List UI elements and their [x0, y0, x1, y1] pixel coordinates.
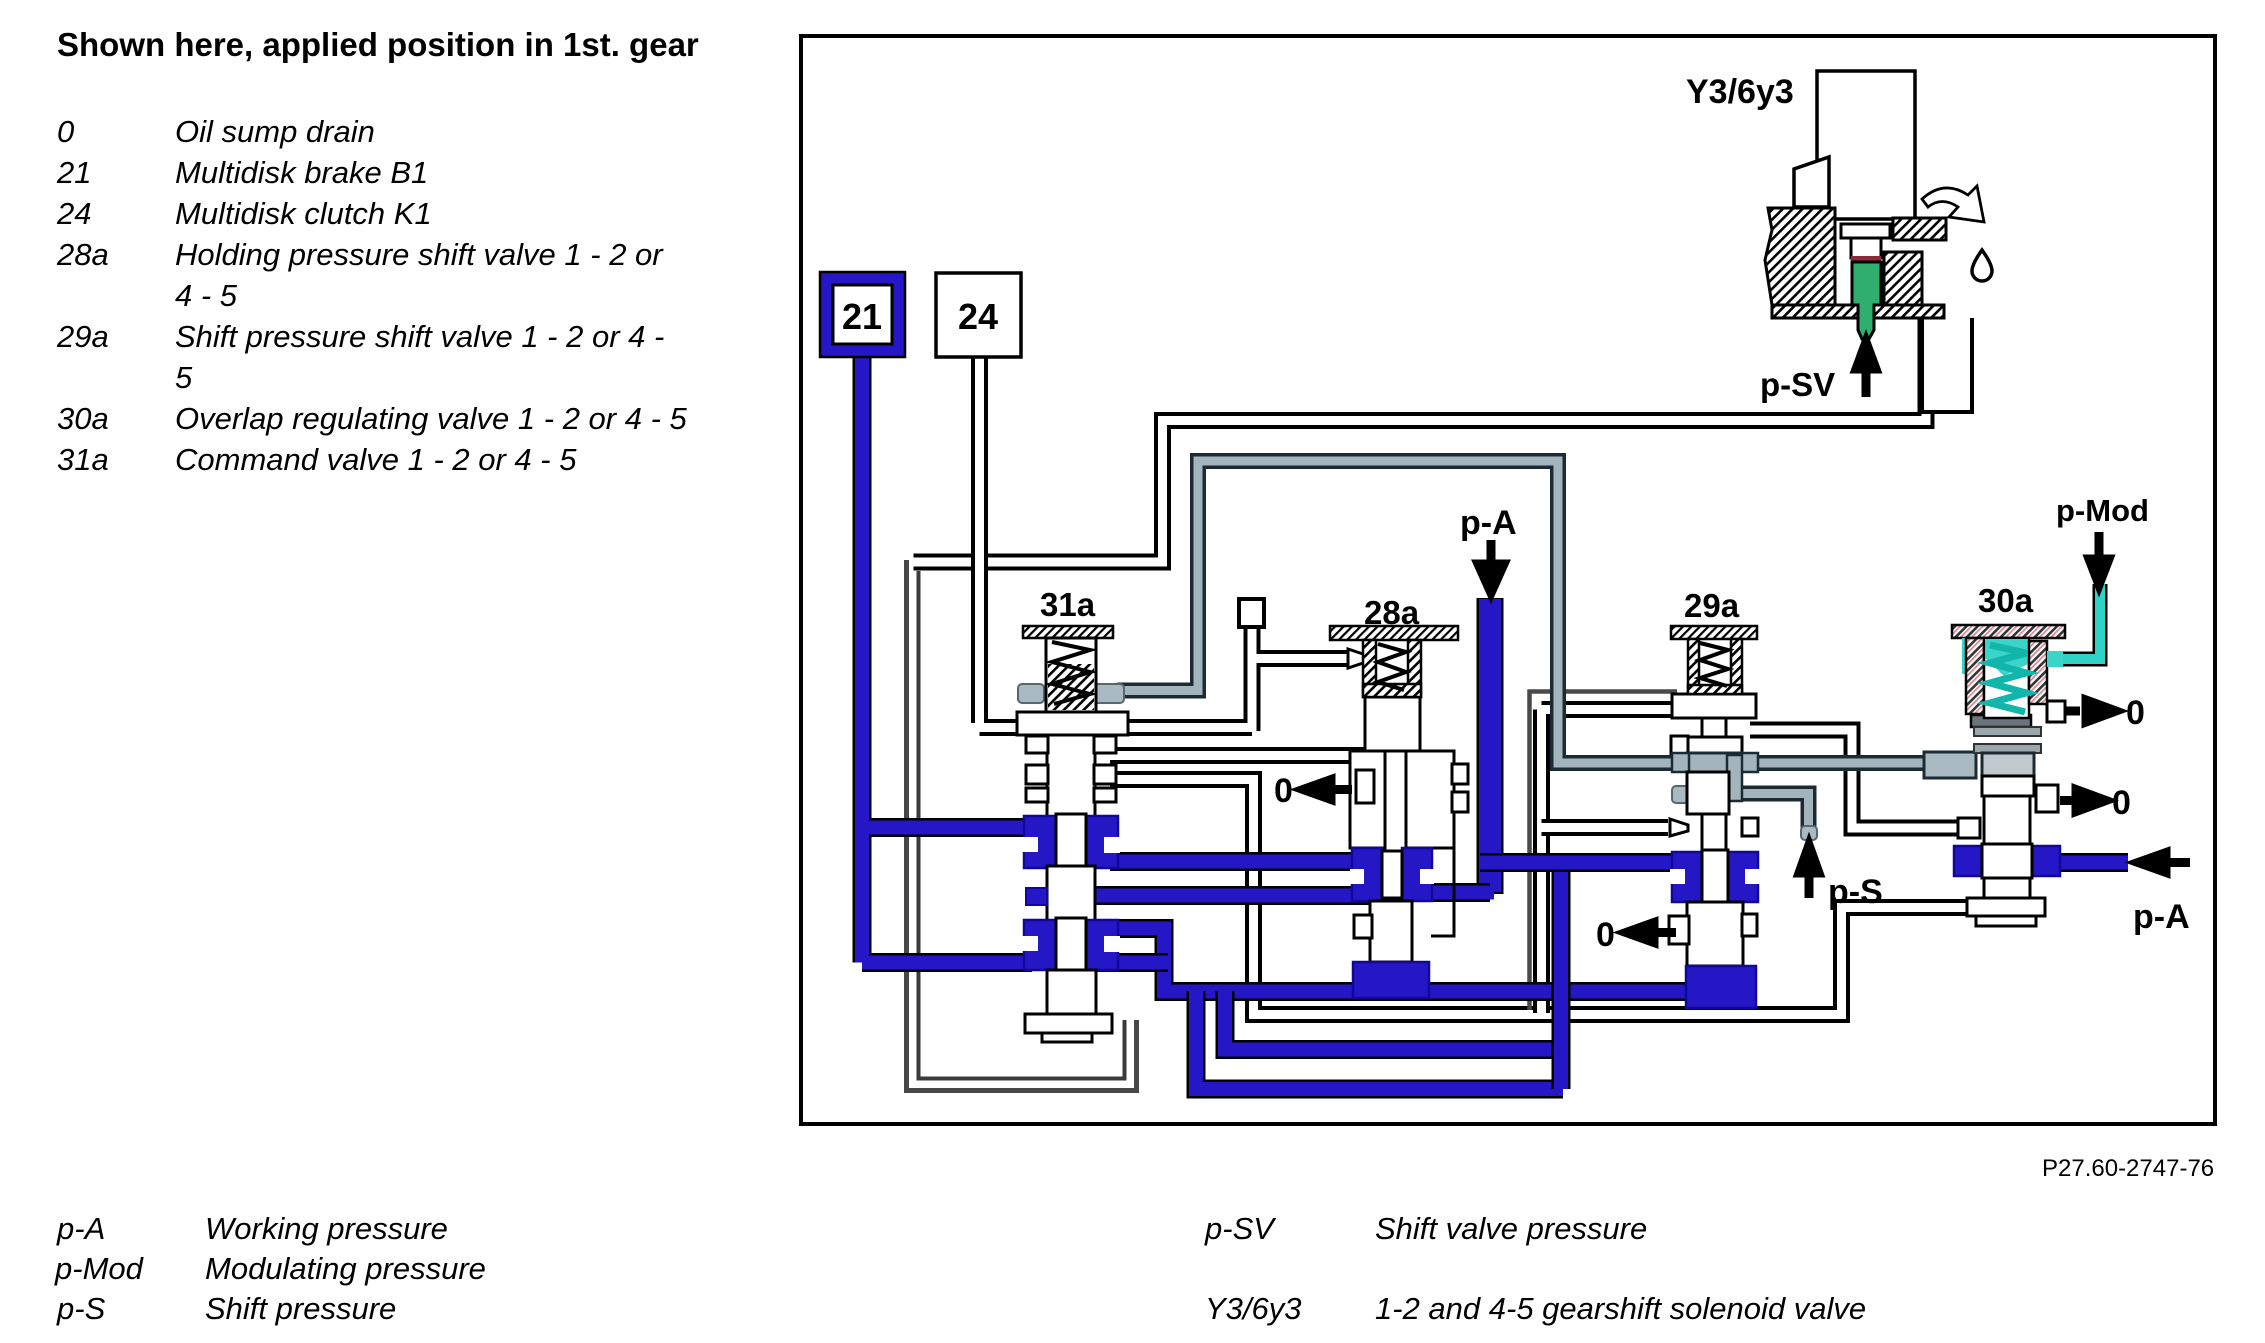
- solenoid oil droplet: [1972, 250, 1992, 281]
- valve 29a bottom blue cup: [1686, 966, 1756, 1008]
- valve 28a cone into spring: [1348, 649, 1366, 668]
- bottom legend: [54, 1211, 1866, 1326]
- valve 31a left port tab 3: [1026, 788, 1048, 802]
- valve 30a mid body: [1982, 776, 2034, 796]
- wire steel shift-valve pressure gallery 31a to 30a: [1117, 461, 1966, 834]
- valve 29a lower land: [1687, 902, 1743, 966]
- valve 30a spring housing left hatched: [1966, 638, 1984, 714]
- svg-text:Y3/6y3: Y3/6y3: [1686, 73, 1794, 111]
- wire blue p-A port pipe at 30a: [2058, 853, 2128, 872]
- valve 28a housing right step notch 1: [1452, 764, 1468, 784]
- node 31a spring stub left: [1018, 684, 1044, 703]
- svg-text:p-A: p-A: [56, 1211, 105, 1246]
- valve 31a upper body: [1047, 735, 1095, 817]
- valve 30a gray band A: [1974, 727, 2041, 736]
- label p-A right with left arrow: [2138, 853, 2190, 873]
- solenoid spill curved arrow: [1922, 186, 1984, 222]
- valve 30a blue tabs: [1954, 846, 1982, 876]
- svg-text:0: 0: [1274, 772, 1293, 810]
- valve 31a left port tab 1: [1026, 736, 1048, 753]
- svg-text:Multidisk brake B1: Multidisk brake B1: [175, 155, 428, 190]
- valve 30a left teal sliver: [1962, 638, 1968, 674]
- valve 28a bottom blue cup: [1353, 962, 1429, 998]
- valve 29a cone: [1670, 819, 1688, 836]
- valve 29a lower left port pocket: [1669, 916, 1689, 944]
- svg-text:31a: 31a: [1040, 586, 1096, 623]
- wire blue pipe from brake 21: [862, 357, 1032, 963]
- node 31a spring stub right: [1094, 684, 1124, 703]
- solenoid left wedge: [1794, 157, 1829, 207]
- wire teal p-Mod pipe: [2053, 584, 2100, 659]
- valve 30a gray band B: [1974, 744, 2041, 753]
- svg-text:0: 0: [57, 114, 74, 149]
- valve 31a bottom land: [1047, 970, 1096, 1014]
- solenoid right hatched block: [1884, 252, 1922, 305]
- svg-text:p-A: p-A: [2133, 898, 2190, 936]
- valve 31a tab notches zone1: [1022, 837, 1038, 852]
- valve 31a stem in zone2: [1056, 918, 1086, 971]
- valve 29a land 1: [1687, 737, 1742, 755]
- svg-text:31a: 31a: [57, 442, 109, 477]
- svg-text:Modulating pressure: Modulating pressure: [205, 1251, 486, 1286]
- component box 21 blue: [820, 272, 905, 357]
- valve 28a blue tabs: [1352, 848, 1382, 901]
- svg-text:Holding pressure shift valve 1: Holding pressure shift valve 1 - 2 or: [175, 237, 664, 272]
- svg-text:24: 24: [56, 196, 91, 231]
- valve 28a spring: [1378, 644, 1406, 690]
- svg-text:28a: 28a: [1364, 594, 1420, 631]
- wire pipe from clutch 24 to valve 31a: [980, 357, 1037, 728]
- valve 30a right port tab 2: [2036, 785, 2058, 812]
- valve 29a stem blue zone: [1702, 850, 1728, 903]
- valve 29a gray inner channel: [1727, 755, 1742, 801]
- valve 31a middle land: [1047, 866, 1095, 922]
- wire blue riser right of 29a: [1552, 861, 1571, 1089]
- valve 28a spacer: [1365, 697, 1420, 751]
- valve 31a spring: [1052, 642, 1090, 704]
- valve 28a lower land: [1370, 901, 1412, 962]
- svg-text:21: 21: [842, 296, 882, 337]
- wire blue row4 with Z-bend and rail A to 29a: [1086, 929, 1692, 992]
- svg-text:21: 21: [56, 155, 91, 190]
- valve 30a port 0 upper tab: [2047, 701, 2065, 722]
- wire blue row5: [1093, 953, 1168, 972]
- valve 31a left port tab 2: [1026, 765, 1048, 784]
- valve 30a lower land: [1984, 878, 2030, 898]
- valve 29a land 2: [1687, 772, 1729, 814]
- svg-text:4 - 5: 4 - 5: [175, 278, 238, 313]
- svg-text:0: 0: [1596, 916, 1615, 954]
- valve 31a right port tab 1: [1094, 736, 1116, 753]
- label 0 drain 30a upper with right arrow: [2065, 700, 2116, 722]
- svg-text:Command valve 1 - 2 or 4 - 5: Command valve 1 - 2 or 4 - 5: [175, 442, 577, 477]
- svg-text:p-Mod: p-Mod: [2056, 493, 2149, 528]
- wire thin gray drain line from 29a: [1530, 692, 1678, 1011]
- wire 29a left riser pipe: [1542, 710, 1677, 1014]
- valve 29a steel pass zone: [1687, 753, 1742, 772]
- svg-text:P27.60-2747-76: P27.60-2747-76: [2042, 1155, 2214, 1182]
- wire blue row3 31a to 28a: [1093, 886, 1370, 905]
- solenoid green plug: [1852, 262, 1881, 339]
- valve 28a lower left tab: [1354, 915, 1372, 938]
- svg-text:29a: 29a: [56, 319, 109, 354]
- svg-text:Overlap regulating valve 1 - 2: Overlap regulating valve 1 - 2 or 4 - 5: [175, 401, 688, 436]
- svg-text:Shift pressure: Shift pressure: [205, 1291, 396, 1326]
- valve 31a left blue stub row3: [1026, 888, 1047, 905]
- valve 28a stem blue zone: [1382, 851, 1402, 898]
- valve 29a land1 left tab: [1671, 736, 1688, 754]
- svg-text:0: 0: [2112, 784, 2131, 822]
- valve 29a spring housing hatched: [1688, 639, 1699, 694]
- wire p-SV pipe from solenoid to left drop: [914, 312, 1986, 1015]
- vent square symbol: [1239, 599, 1264, 627]
- svg-text:5: 5: [175, 360, 193, 395]
- valve 29a stem mid: [1702, 814, 1726, 854]
- svg-text:p-Mod: p-Mod: [54, 1251, 145, 1286]
- svg-text:Multidisk clutch K1: Multidisk clutch K1: [175, 196, 432, 231]
- solenoid seal line: [1851, 256, 1881, 261]
- valve 31a spring housing: [1046, 638, 1096, 712]
- valve 31a stem in zone1: [1056, 814, 1086, 869]
- valve 29a lower right tab: [1742, 914, 1757, 936]
- diagram frame: [801, 36, 2215, 1124]
- valve 28a housing chamber: [1350, 751, 1454, 848]
- valve 31a right port tab 3: [1094, 788, 1116, 802]
- valve 29a blue tabs: [1672, 852, 1702, 902]
- valve 28a left port tab: [1356, 770, 1374, 803]
- valve 29a spring: [1700, 643, 1728, 686]
- valve 28a hatched cap: [1330, 626, 1458, 640]
- svg-text:Shift pressure shift valve 1 -: Shift pressure shift valve 1 - 2 or 4 -: [175, 319, 664, 354]
- valve 30a stem: [1984, 796, 2030, 846]
- solenoid left hatched block: [1765, 208, 1835, 305]
- svg-text:Y3/6y3: Y3/6y3: [1205, 1291, 1302, 1326]
- svg-text:p-SV: p-SV: [1204, 1211, 1277, 1246]
- node 30a steel sleeve: [1924, 752, 1976, 778]
- svg-text:28a: 28a: [56, 237, 109, 272]
- svg-text:30a: 30a: [57, 401, 109, 436]
- solenoid drain chamber right: [1922, 318, 1972, 412]
- svg-text:Shown here, applied position i: Shown here, applied position in 1st. gea…: [57, 26, 699, 63]
- wire 29a cone feed pipe: [1542, 819, 1669, 836]
- valve 31a bottom cup: [1042, 1033, 1092, 1042]
- valve 30a right hatched column: [2029, 641, 2047, 704]
- wire steel p-S branch from 29a: [1742, 794, 1809, 835]
- solenoid bottom hatched bar: [1772, 305, 1944, 318]
- valve 29a tab notches: [1670, 869, 1685, 884]
- valve 28a tab notches: [1350, 869, 1364, 884]
- node p-S pipe end capsule: [1801, 826, 1817, 840]
- svg-text:p-SV: p-SV: [1760, 366, 1835, 403]
- wire blue bus 31a to 28a row2: [1110, 852, 1370, 871]
- svg-text:24: 24: [958, 296, 998, 337]
- valve 30a steel pass zone: [1982, 753, 2034, 791]
- valve 30a right teal blob: [2047, 651, 2063, 667]
- valve 31a bottom flange: [1025, 1014, 1112, 1033]
- valve 31a tab notches zone2: [1022, 936, 1038, 951]
- label 0 drain 30a mid with right arrow: [2060, 790, 2106, 812]
- svg-text:1-2 and 4-5 gearshift solenoid: 1-2 and 4-5 gearshift solenoid valve: [1375, 1291, 1866, 1326]
- wire blue vertical 1 and rail C: [1196, 991, 1563, 1089]
- valve 28a stem: [1385, 751, 1406, 851]
- valve 31a blue land tabs zone 2: [1024, 920, 1056, 970]
- valve 29a right white tab: [1742, 818, 1758, 836]
- valve 30a bottom flange: [1967, 898, 2045, 916]
- valve 28a housing right wall lower: [1431, 848, 1454, 936]
- valve 29a top flange: [1672, 694, 1756, 718]
- svg-text:Working pressure: Working pressure: [205, 1211, 448, 1246]
- valve 29a hatched cap: [1671, 626, 1757, 639]
- solenoid coil body: [1817, 71, 1915, 219]
- valve 29a stem upper: [1702, 718, 1726, 740]
- valve 31a right port tab 2: [1094, 765, 1116, 784]
- valve 31a blue land tabs zone 1: [1024, 816, 1056, 868]
- wire 31a port3 long drain run to 30a bottom: [1110, 780, 1985, 1015]
- valve 30a teal chamber: [1984, 638, 2029, 718]
- valve 30a hatched cap: [1952, 625, 2065, 638]
- component box 24: [936, 273, 1021, 357]
- valve 30a bottom cup: [1976, 916, 2036, 926]
- valve 28a housing right step notch 2: [1452, 792, 1468, 812]
- sump tray outline under 31a: [907, 560, 1137, 1091]
- svg-text:Oil sump drain: Oil sump drain: [175, 114, 375, 149]
- wire 29a to 30a upper pipe: [1750, 730, 1968, 828]
- node 29a steel capsule left row2: [1672, 786, 1700, 803]
- wire blue p-A supply vertical with arms: [1477, 598, 1504, 894]
- wire 31a to 28a chamber pipe: [1110, 747, 1386, 764]
- svg-text:0: 0: [2126, 694, 2145, 732]
- svg-text:p-S: p-S: [56, 1291, 106, 1326]
- svg-text:30a: 30a: [1978, 582, 2034, 619]
- solenoid right hatched bar: [1893, 218, 1946, 240]
- svg-text:p-A: p-A: [1460, 504, 1517, 542]
- svg-text:Shift valve pressure: Shift valve pressure: [1375, 1211, 1647, 1246]
- solenoid neck: [1851, 238, 1881, 258]
- valve 30a stem blue zone: [1982, 844, 2032, 878]
- valve 30a teal spring: [1990, 645, 2026, 712]
- legend list: [56, 114, 688, 477]
- valve 31a top flange: [1017, 712, 1128, 735]
- svg-text:29a: 29a: [1684, 587, 1740, 624]
- solenoid armature nut: [1841, 224, 1890, 238]
- valve 28a spring housing hatched: [1363, 640, 1376, 697]
- wire blue vertical 2 and rail B: [1225, 991, 1563, 1050]
- wire vent square drop pipe to 28a spring and 31a port: [1110, 626, 1350, 731]
- svg-text:p-S: p-S: [1828, 873, 1883, 911]
- valve 30a left port tab: [1958, 818, 1980, 838]
- valve 31a hatched cap: [1023, 626, 1113, 638]
- valve 30a top dark bar: [1971, 715, 2031, 727]
